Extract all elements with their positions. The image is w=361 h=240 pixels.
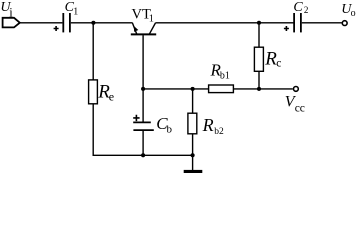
svg-text:b1: b1 bbox=[220, 70, 230, 81]
svg-text:C: C bbox=[293, 0, 303, 15]
svg-text:R: R bbox=[202, 115, 214, 135]
svg-text:b: b bbox=[167, 124, 173, 136]
svg-text:b2: b2 bbox=[214, 127, 224, 137]
svg-text:e: e bbox=[109, 90, 114, 104]
svg-text:cc: cc bbox=[295, 103, 305, 115]
svg-text:c: c bbox=[276, 58, 281, 70]
svg-text:o: o bbox=[351, 8, 356, 19]
svg-text:1: 1 bbox=[149, 13, 154, 24]
svg-text:1: 1 bbox=[73, 6, 78, 17]
svg-text:2: 2 bbox=[304, 5, 309, 15]
svg-text:i: i bbox=[9, 6, 13, 20]
